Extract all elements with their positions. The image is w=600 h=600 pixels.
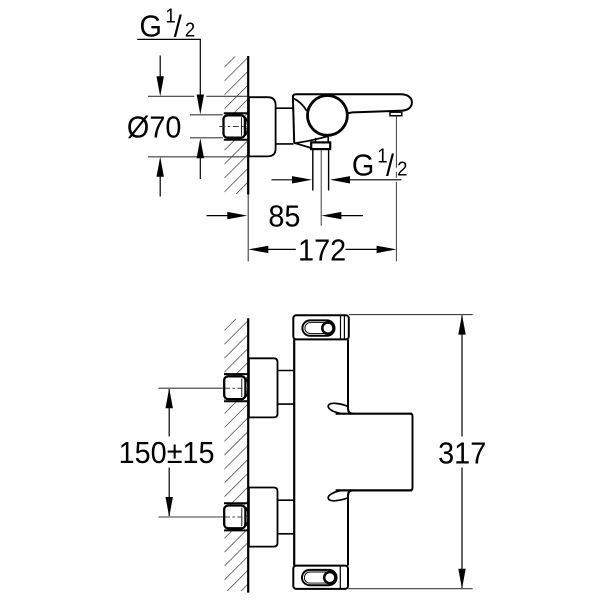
spout curl top xyxy=(328,403,348,413)
connector stub side view xyxy=(276,107,294,109)
dim extension line D70 bottom xyxy=(148,156,247,158)
wall hatching bottom view xyxy=(225,319,248,591)
nut dim arrow up xyxy=(197,138,204,179)
bottom cap xyxy=(293,566,348,589)
bottom cap toggle xyxy=(302,570,337,585)
svg-text:G1/2: G1/2 xyxy=(140,6,196,44)
spout curl bottom xyxy=(328,491,348,501)
dim extension line D70 top xyxy=(148,95,194,97)
wall face line top view xyxy=(247,56,249,195)
top cap toggle xyxy=(302,320,334,335)
317 extension bottom xyxy=(348,588,472,590)
spout block top edge xyxy=(336,413,412,415)
escutcheon side view xyxy=(249,97,276,156)
top cap xyxy=(293,315,349,339)
body front: right edge upper xyxy=(348,340,353,414)
dim extension line nut top xyxy=(190,114,223,116)
fillet curve xyxy=(294,98,307,111)
172 dim xyxy=(248,246,396,253)
faucet body side view xyxy=(293,94,412,148)
svg-text:Ø70: Ø70 xyxy=(127,110,181,144)
body chin xyxy=(294,143,313,149)
G1/2 outlet dim arrows xyxy=(272,176,402,183)
dim extension line nut bottom xyxy=(190,137,223,139)
150 dim extension top (centerline through nut) xyxy=(158,387,222,389)
wall hatching top view xyxy=(225,57,248,195)
body front: left edge xyxy=(293,340,295,566)
nut front bottom xyxy=(224,503,248,530)
wall face line bottom view xyxy=(247,318,249,592)
svg-text:85: 85 xyxy=(268,200,300,234)
317 extension top xyxy=(349,314,473,316)
nut (union) side view xyxy=(219,113,247,139)
G1/2 leader line top xyxy=(137,39,204,114)
outlet connector left xyxy=(315,138,317,143)
spout nub xyxy=(390,112,402,116)
outlet band (nut) xyxy=(311,142,330,149)
outlet centerline xyxy=(320,150,322,226)
svg-text:G1/2: G1/2 xyxy=(352,146,408,183)
body top edge + spout xyxy=(293,94,412,118)
stub bottom xyxy=(278,499,295,501)
wall face extension line xyxy=(247,195,249,262)
svg-text:150±15: 150±15 xyxy=(119,436,215,470)
spout centerline xyxy=(395,116,397,261)
escutcheon front bottom xyxy=(249,488,278,547)
outlet connector right xyxy=(327,137,329,143)
D70 arrow up xyxy=(157,157,164,197)
svg-text:172: 172 xyxy=(298,234,346,268)
body left edge xyxy=(293,96,294,143)
spout block bottom edge xyxy=(336,489,412,491)
85 dim xyxy=(207,212,363,219)
body under-curve to circle xyxy=(294,136,328,143)
D70 arrow down xyxy=(157,56,164,97)
stub top xyxy=(278,370,295,372)
svg-text:317: 317 xyxy=(438,437,486,471)
cartridge dome circle xyxy=(308,96,348,136)
outlet pipe lines xyxy=(312,150,314,191)
spout block right edge xyxy=(411,414,413,491)
body front: right edge lower xyxy=(348,490,353,565)
150 dim line + arrows xyxy=(166,388,173,517)
150 dim extension bottom xyxy=(158,516,222,518)
escutcheon front top xyxy=(249,358,278,417)
nut front top xyxy=(224,374,248,401)
317 dim line + arrows xyxy=(458,315,465,589)
